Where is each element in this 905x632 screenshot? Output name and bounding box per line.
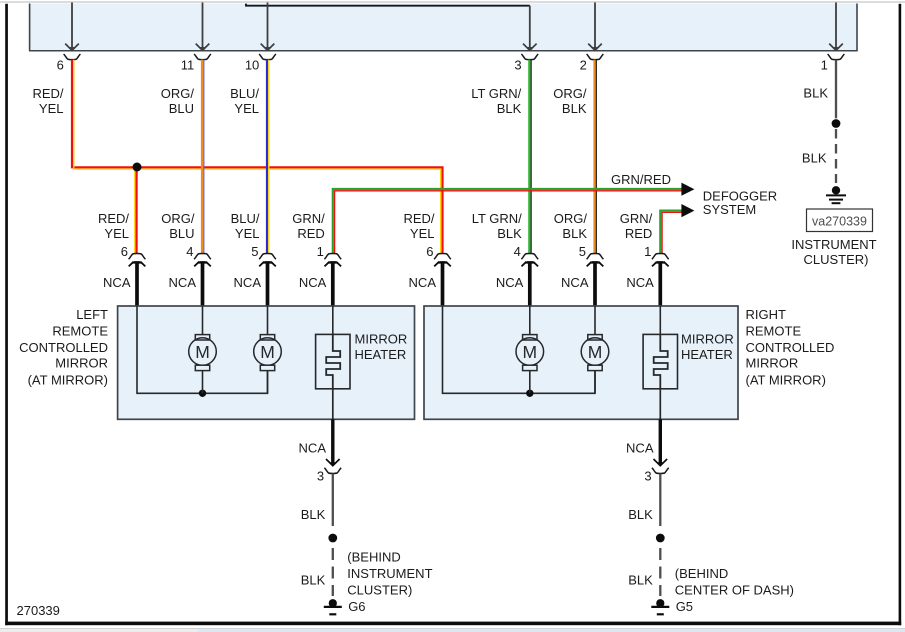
svg-text:GRN/RED: GRN/RED <box>611 172 671 187</box>
left mirror internal wiring (common return) <box>137 306 268 393</box>
svg-text:(BEHIND: (BEHIND <box>347 550 400 565</box>
wire BLK dashed to G6 <box>332 548 334 596</box>
wire BLK (dashed, behind instrument cluster) <box>835 129 837 183</box>
label MIRROR HEATER (left) <box>355 332 408 363</box>
wire into switch pin 2 (arrow) <box>588 3 602 51</box>
svg-text:4: 4 <box>186 244 193 259</box>
svg-text:RED: RED <box>625 226 652 241</box>
svg-text:CLUSTER): CLUSTER) <box>347 583 412 598</box>
svg-text:LT GRN/: LT GRN/ <box>472 211 522 226</box>
svg-text:2: 2 <box>580 58 587 73</box>
svg-text:BLK: BLK <box>802 151 827 166</box>
label ORG/BLU (mirror pin 4) <box>161 211 195 241</box>
svg-text:RED/: RED/ <box>32 86 63 101</box>
wire into switch pin 3 (arrow) <box>523 6 537 51</box>
svg-text:NCA: NCA <box>561 275 589 290</box>
wire LT GRN/BLK switch pin 3 to right mirror pin 4 <box>529 60 531 254</box>
svg-text:HEATER: HEATER <box>355 347 407 362</box>
svg-text:MIRROR: MIRROR <box>355 332 408 347</box>
svg-text:RED/: RED/ <box>403 211 434 226</box>
svg-text:6: 6 <box>426 244 433 259</box>
mirror heater (left) <box>316 306 350 419</box>
connector at mirror pin 5 x=267.5 <box>251 244 276 307</box>
svg-text:CENTER OF DASH): CENTER OF DASH) <box>675 583 794 598</box>
junction (RED/YEL splice) <box>133 163 142 172</box>
svg-text:BLK: BLK <box>301 507 326 522</box>
svg-text:NCA: NCA <box>103 275 131 290</box>
svg-text:va270339: va270339 <box>812 215 867 229</box>
svg-text:MIRROR: MIRROR <box>681 332 734 347</box>
svg-text:BLU/: BLU/ <box>230 86 259 101</box>
junction (right mirror common) <box>526 390 533 397</box>
wire into switch pin 11 (arrow) <box>196 3 210 51</box>
svg-text:3: 3 <box>644 468 651 483</box>
svg-text:BLU/: BLU/ <box>231 211 260 226</box>
svg-text:M: M <box>260 342 275 362</box>
connector at mirror pin 1 x=660.3 <box>644 244 669 307</box>
arrow to defogger system (lower) <box>681 204 694 217</box>
motor M (right mirror, horizontal) <box>516 306 544 393</box>
connector at switch pin 3 <box>514 54 538 73</box>
svg-text:ORG/: ORG/ <box>554 211 588 226</box>
svg-text:YEL: YEL <box>104 226 129 241</box>
svg-text:NCA: NCA <box>299 441 327 456</box>
connector at mirror pin 5 x=595 <box>579 244 604 307</box>
svg-text:CLUSTER): CLUSTER) <box>803 252 868 267</box>
svg-text:(BEHIND: (BEHIND <box>675 566 728 581</box>
wire into switch pin 6 (arrow) <box>65 3 79 51</box>
wire RED/YEL branch to left mirror pin 6 <box>135 167 137 254</box>
svg-text:INSTRUMENT: INSTRUMENT <box>791 237 876 252</box>
label BLU/YEL (mirror pin 5) <box>231 211 260 241</box>
svg-text:REMOTE: REMOTE <box>746 323 802 338</box>
mirror heater (right) <box>643 306 677 419</box>
svg-text:NCA: NCA <box>626 441 654 456</box>
label location (G5) <box>675 566 794 598</box>
svg-text:NCA: NCA <box>299 275 327 290</box>
label ORG/BLK (mirror pin 5) <box>554 211 588 241</box>
right remote controlled mirror box <box>424 306 738 419</box>
svg-text:BLK: BLK <box>803 86 828 101</box>
svg-text:SYSTEM: SYSTEM <box>703 202 756 217</box>
label LT GRN/BLK (top) <box>471 86 521 116</box>
wire BLK to G5 <box>659 474 661 526</box>
svg-text:NCA: NCA <box>626 275 654 290</box>
connector heater pin 3 (G6) <box>317 468 341 483</box>
svg-text:YEL: YEL <box>234 101 259 116</box>
label RED/YEL (mirror pin 6) <box>98 211 129 241</box>
svg-text:11: 11 <box>181 58 195 73</box>
label location (G6) <box>347 550 432 598</box>
svg-text:YEL: YEL <box>410 226 435 241</box>
svg-text:BLK: BLK <box>497 226 522 241</box>
svg-text:MIRROR: MIRROR <box>746 356 799 371</box>
label MIRROR HEATER (right) <box>681 332 734 363</box>
wire GRN/RED left mirror pin 1 to defogger system <box>333 189 682 254</box>
wire BLK dashed to G5 <box>659 548 661 596</box>
svg-text:NCA: NCA <box>234 275 262 290</box>
svg-text:BLK: BLK <box>628 572 653 587</box>
svg-text:LT GRN/: LT GRN/ <box>471 86 521 101</box>
wire BLK to G6 <box>332 474 334 526</box>
svg-text:6: 6 <box>121 244 128 259</box>
left remote controlled mirror box <box>118 306 415 419</box>
wire into switch pin 10 (arrow) <box>261 3 275 51</box>
label RIGHT REMOTE CONTROLLED MIRROR (AT MIRROR) <box>746 307 835 388</box>
svg-text:1: 1 <box>317 244 324 259</box>
svg-text:1: 1 <box>644 244 651 259</box>
svg-text:BLK: BLK <box>562 226 587 241</box>
svg-text:G6: G6 <box>348 599 365 614</box>
svg-text:BLK: BLK <box>562 101 587 116</box>
wire BLK switch pin 1 to instrument cluster ground <box>835 60 837 119</box>
svg-text:YEL: YEL <box>235 226 260 241</box>
svg-text:RED: RED <box>297 226 324 241</box>
svg-text:ORG/: ORG/ <box>161 86 195 101</box>
svg-text:M: M <box>523 342 538 362</box>
junction (BLK splice G6) <box>328 534 337 543</box>
wire NCA heater output (x=332.8) <box>326 419 340 466</box>
label LEFT REMOTE CONTROLLED MIRROR (AT MIRROR) <box>19 307 108 388</box>
svg-text:10: 10 <box>245 58 259 73</box>
label GRN/RED (mirror pin 1) <box>620 211 653 241</box>
svg-text:RED/: RED/ <box>98 211 129 226</box>
svg-text:M: M <box>195 342 210 362</box>
svg-text:3: 3 <box>317 468 324 483</box>
svg-text:GRN/: GRN/ <box>620 211 653 226</box>
svg-text:G5: G5 <box>676 599 693 614</box>
label RED/YEL (top) <box>32 86 63 116</box>
callout box va270339 <box>807 209 873 232</box>
connector at mirror pin 1 x=332.8 <box>317 244 342 307</box>
connector at switch pin 6 <box>57 54 81 73</box>
ground G5 <box>651 599 669 614</box>
motor M (left mirror, horizontal) <box>189 306 217 393</box>
junction (BLK splice G5) <box>656 534 665 543</box>
mirror switch box (cut off at top) <box>29 4 858 51</box>
svg-text:NCA: NCA <box>409 275 437 290</box>
connector heater pin 3 (G5) <box>644 468 668 483</box>
connector at mirror pin 4 x=202.5 <box>186 244 211 307</box>
wire ORG/BLK switch pin 2 to right mirror pin 5 <box>595 60 597 254</box>
svg-text:INSTRUMENT: INSTRUMENT <box>347 566 432 581</box>
svg-text:CONTROLLED: CONTROLLED <box>19 340 108 355</box>
label ORG/BLU (top) <box>161 86 195 116</box>
svg-text:(AT MIRROR): (AT MIRROR) <box>28 372 108 387</box>
wire (switch internal, top) <box>246 4 530 6</box>
connector at mirror pin 6 x=442.5 <box>426 244 451 307</box>
label BLU/YEL (top) <box>230 86 259 116</box>
motor M (left mirror, vertical) <box>254 306 282 393</box>
svg-text:NCA: NCA <box>169 275 197 290</box>
wire BLU/YEL switch pin 10 to left mirror pin 5 <box>267 60 269 254</box>
ground (instrument cluster) <box>826 186 846 203</box>
label INSTRUMENT CLUSTER) <box>791 237 876 267</box>
motor M (right mirror, vertical) <box>581 306 609 393</box>
connector at switch pin 10 <box>245 54 276 73</box>
connector at mirror pin 4 x=529.8 <box>514 244 539 307</box>
svg-text:GRN/: GRN/ <box>292 211 325 226</box>
svg-text:5: 5 <box>251 244 258 259</box>
arrow to defogger system (upper) <box>681 183 694 196</box>
svg-text:(AT MIRROR): (AT MIRROR) <box>746 372 826 387</box>
connector at switch pin 1 <box>821 54 845 73</box>
label GRN/RED (mirror pin 1) <box>292 211 325 241</box>
wire NCA heater output (x=660.3) <box>654 419 668 466</box>
svg-text:BLK: BLK <box>497 101 522 116</box>
svg-text:LEFT: LEFT <box>76 307 108 322</box>
label DEFOGGER SYSTEM <box>703 189 777 218</box>
svg-text:BLK: BLK <box>628 507 653 522</box>
svg-text:1: 1 <box>821 58 828 73</box>
label RED/YEL (mirror pin 6) <box>403 211 434 241</box>
junction (BLK splice) <box>832 119 841 128</box>
junction (left mirror common) <box>199 390 206 397</box>
connector at switch pin 11 <box>181 54 211 73</box>
svg-text:MIRROR: MIRROR <box>55 356 108 371</box>
svg-text:5: 5 <box>579 244 586 259</box>
svg-text:270339: 270339 <box>17 603 60 618</box>
svg-text:CONTROLLED: CONTROLLED <box>746 340 835 355</box>
top UI hairline <box>0 1 905 3</box>
svg-text:3: 3 <box>514 58 521 73</box>
svg-text:BLK: BLK <box>301 572 326 587</box>
wire RED/YEL from switch pin 6 across to right mirror (horizontal run) <box>72 60 443 254</box>
svg-text:ORG/: ORG/ <box>553 86 587 101</box>
connector at switch pin 2 <box>580 54 604 73</box>
svg-text:NCA: NCA <box>496 275 524 290</box>
label LT GRN/BLK (mirror pin 4) <box>472 211 522 241</box>
svg-text:BLU: BLU <box>169 226 194 241</box>
wire ORG/BLU switch pin 11 to left mirror pin 4 <box>202 60 204 254</box>
ground G6 <box>324 599 342 614</box>
label ORG/BLK (top) <box>553 86 587 116</box>
svg-text:ORG/: ORG/ <box>161 211 195 226</box>
svg-text:M: M <box>588 342 603 362</box>
svg-text:4: 4 <box>514 244 521 259</box>
svg-text:BLU: BLU <box>169 101 194 116</box>
right mirror internal wiring (common return) <box>443 306 596 393</box>
svg-text:HEATER: HEATER <box>681 347 733 362</box>
svg-text:YEL: YEL <box>39 101 64 116</box>
svg-text:RIGHT: RIGHT <box>746 307 787 322</box>
wire into switch pin 1 (arrow) <box>829 3 843 51</box>
connector at mirror pin 6 x=137 <box>121 244 146 307</box>
svg-text:6: 6 <box>57 58 64 73</box>
bottom scrollbar strip <box>0 629 905 632</box>
svg-text:REMOTE: REMOTE <box>52 323 108 338</box>
wire GRN/RED right mirror pin 1 to defogger system <box>660 211 681 254</box>
